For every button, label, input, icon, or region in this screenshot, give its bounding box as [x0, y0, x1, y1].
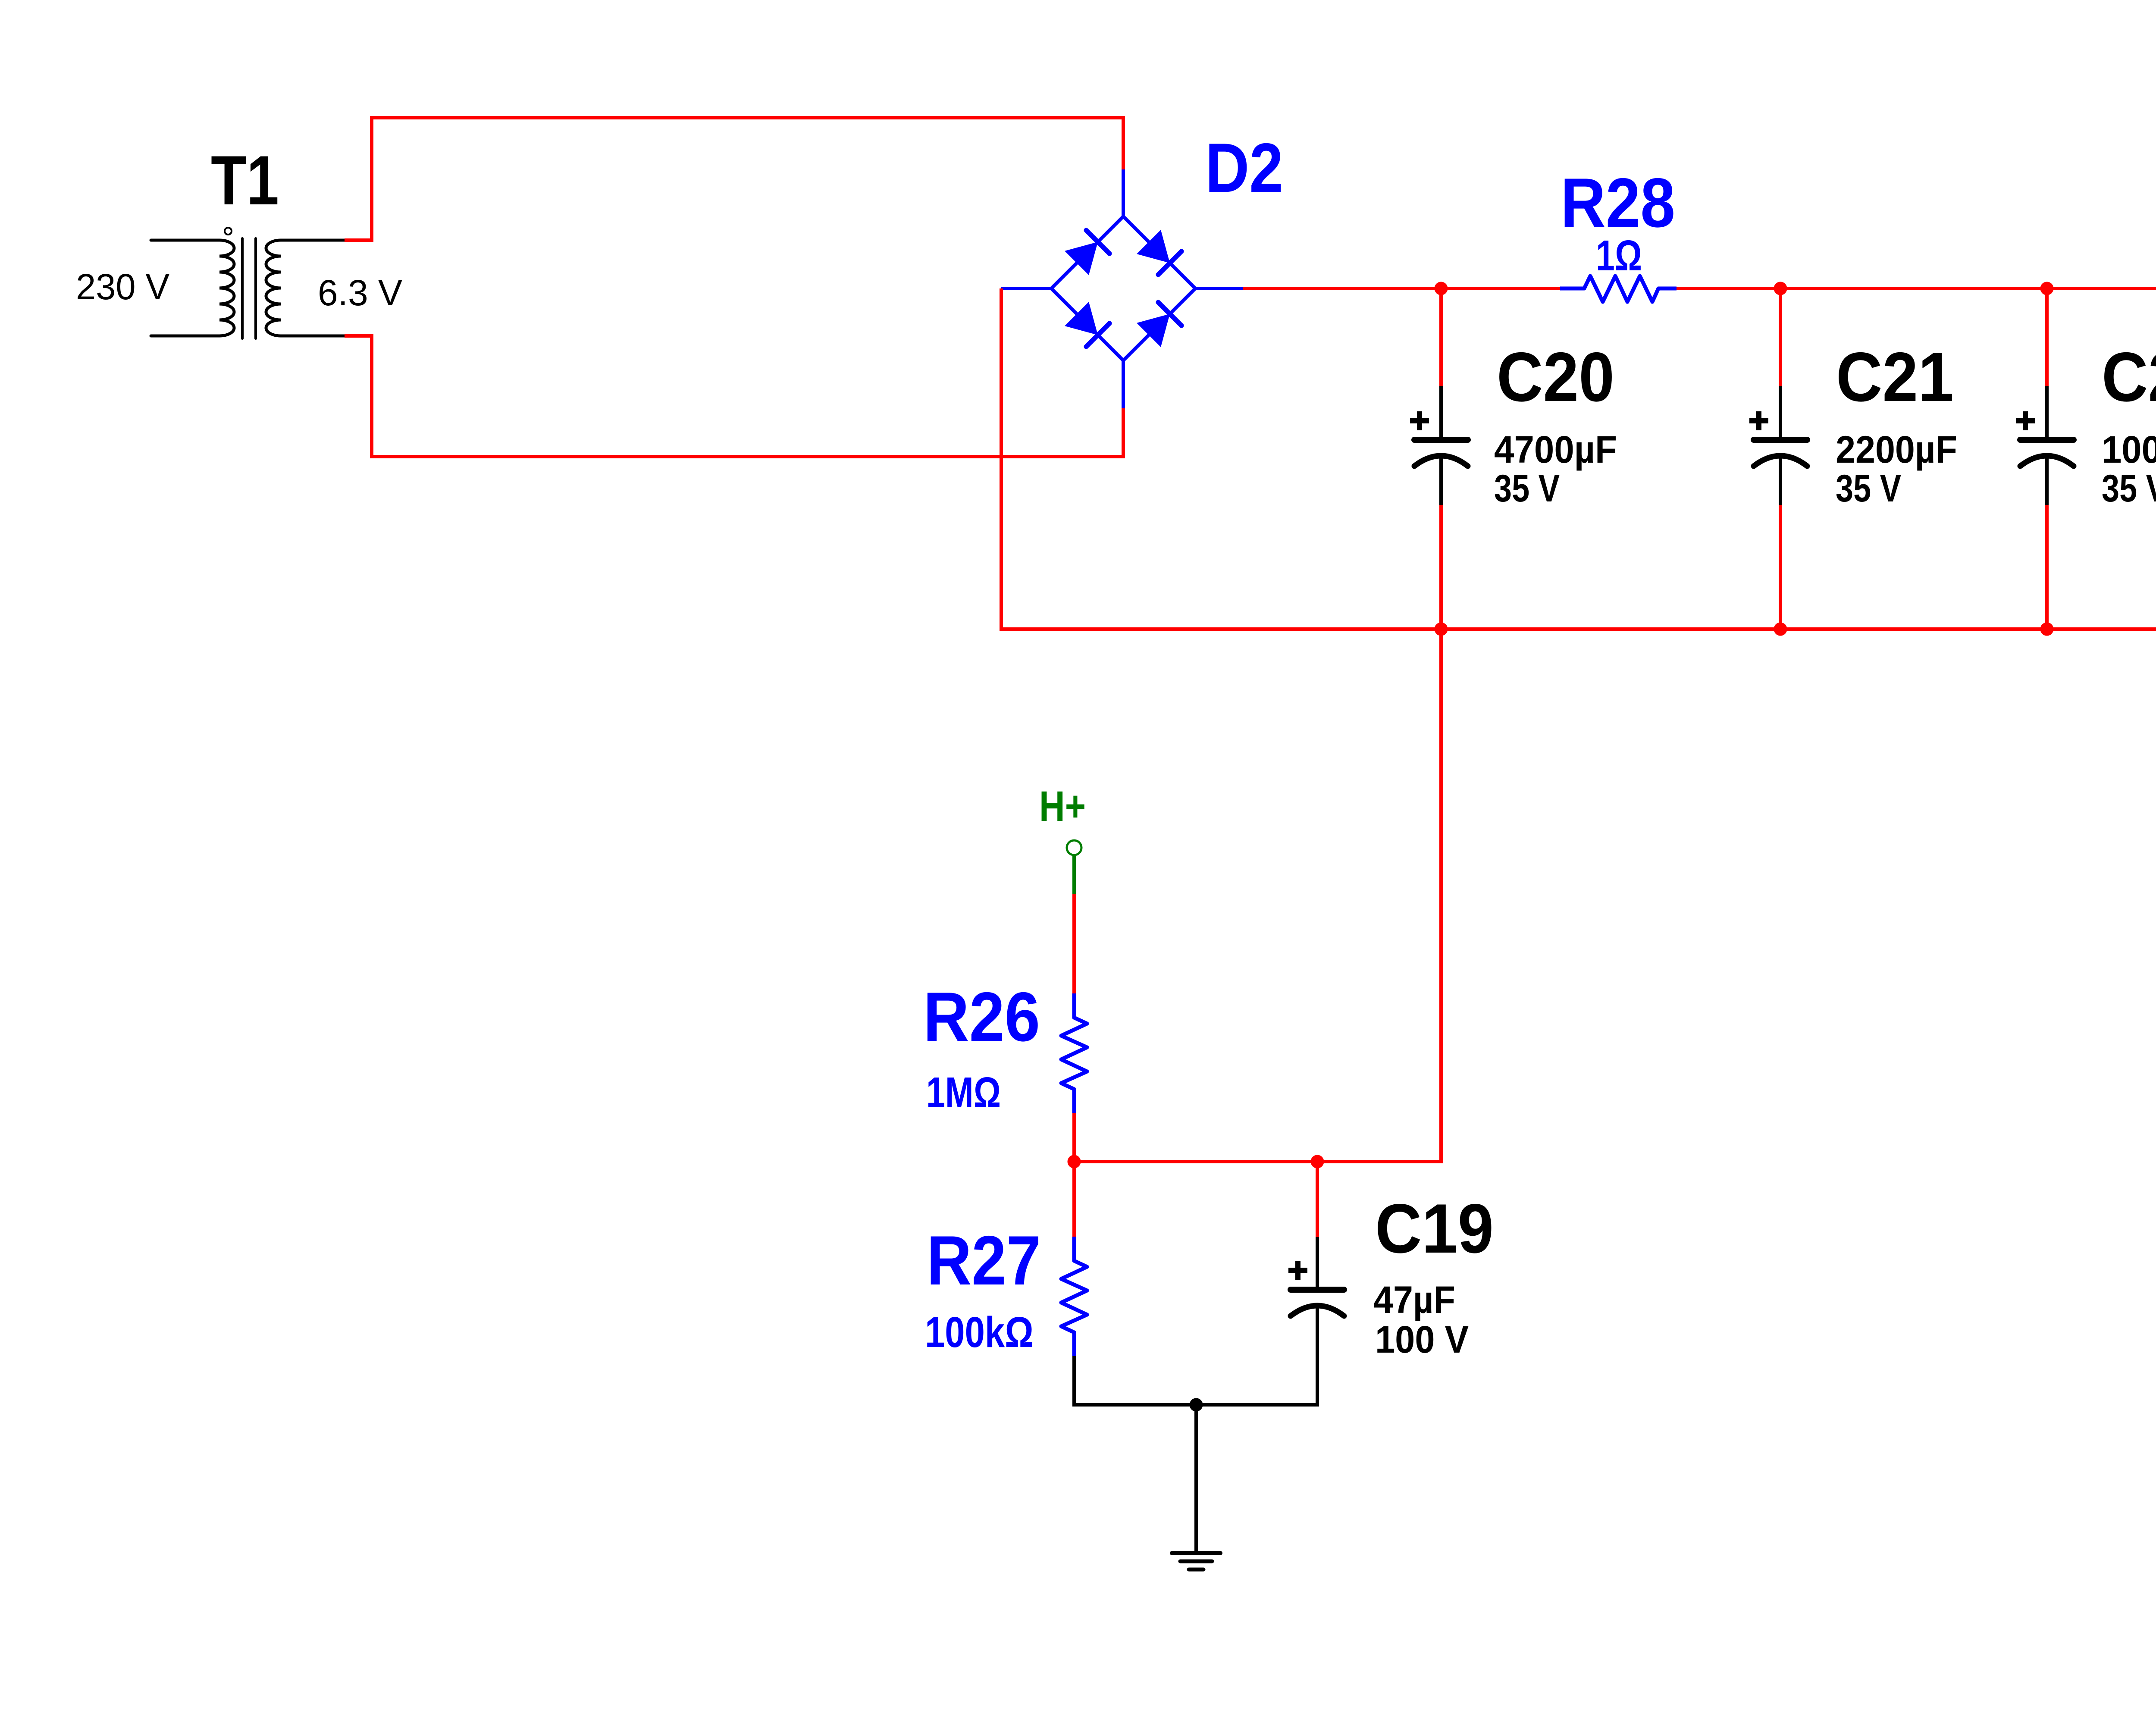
wire bottom rail down to divider node (red): [1074, 629, 1441, 1162]
resistor R28: [1560, 276, 1677, 302]
capacitor C21 top lead (red): [1779, 288, 1782, 386]
capacitor C21 bottom lead (black): [1779, 457, 1782, 505]
capacitor C22 bottom lead (black): [2045, 457, 2049, 505]
capacitor C19 positive plate: [1291, 1287, 1344, 1293]
junction bottom rail x=4747: [2040, 623, 2054, 636]
junction bottom rail x=4129: [1774, 623, 1787, 636]
wire R26 to node (red): [1072, 1113, 1076, 1162]
transformer T1 secondary winding: [266, 240, 345, 336]
capacitor C20 top lead (black): [1439, 386, 1443, 437]
svg-text:35 V: 35 V: [2102, 467, 2156, 510]
diode D2-2 (upper-right): [1137, 230, 1181, 275]
wire node to R27 (red): [1072, 1162, 1076, 1237]
diode D2-4 (lower-right): [1137, 302, 1181, 347]
capacitor C21 plus sign: [1749, 411, 1768, 430]
svg-text:C20: C20: [1497, 338, 1614, 416]
svg-text:35 V: 35 V: [1494, 467, 1560, 510]
svg-text:C19: C19: [1375, 1190, 1494, 1268]
svg-text:6.3 V: 6.3 V: [318, 273, 402, 313]
resistor R27: [1061, 1237, 1087, 1356]
junction C19 top: [1311, 1155, 1324, 1169]
transformer T1 primary winding: [151, 240, 234, 336]
capacitor C21 positive plate: [1754, 437, 1807, 443]
capacitor C20 positive plate: [1414, 437, 1468, 443]
svg-text:1Ω: 1Ω: [1596, 232, 1642, 280]
wire secondary bottom to bridge bottom (red): [345, 336, 1123, 457]
bridge D2 right stub: [1195, 287, 1243, 290]
wire bridge left vertex down and bottom rail (red): [1001, 288, 2156, 629]
bridge D2 bottom stub: [1122, 360, 1125, 408]
bridge D2 left stub: [1001, 287, 1051, 290]
capacitor C19 top lead (red): [1316, 1162, 1319, 1237]
transformer T1 phase dot: [225, 228, 232, 235]
svg-text:R27: R27: [927, 1222, 1041, 1300]
terminal H+: [1067, 840, 1081, 855]
capacitor C21 negative plate (arc): [1754, 456, 1807, 466]
svg-text:4700µF: 4700µF: [1494, 428, 1617, 471]
diode D2-1 (upper-left): [1065, 230, 1109, 275]
junction top rail x=3342: [1435, 282, 1448, 295]
bridge D2 top stub: [1122, 169, 1125, 216]
svg-text:47µF: 47µF: [1373, 1278, 1455, 1321]
junction divider node: [1068, 1155, 1081, 1169]
svg-text:D2: D2: [1205, 129, 1283, 207]
svg-text:H+: H+: [1039, 782, 1086, 830]
capacitor C22 bottom lead (red): [2045, 505, 2049, 629]
svg-text:R26: R26: [923, 978, 1040, 1056]
resistor R26: [1061, 993, 1087, 1113]
wire R28 to terminal 4+5 (red, top rail): [1677, 287, 2156, 290]
capacitor C22 top lead (red): [2045, 288, 2049, 386]
bridge rectifier D2 diamond: [1051, 216, 1195, 360]
svg-text:35 V: 35 V: [1836, 467, 1901, 510]
capacitor C19 top lead (black): [1316, 1237, 1319, 1287]
svg-text:100 V: 100 V: [1375, 1318, 1469, 1361]
wire R27 to ground rail (black): [1074, 1356, 1196, 1405]
capacitor C20 bottom lead (red): [1439, 505, 1443, 629]
capacitor C22 positive plate: [2020, 437, 2074, 443]
svg-text:C22: C22: [2102, 338, 2156, 416]
capacitor C21 bottom lead (red): [1779, 505, 1782, 629]
capacitor C22 plus sign: [2016, 411, 2035, 430]
svg-text:C21: C21: [1836, 338, 1954, 416]
junction top rail x=4747: [2040, 282, 2054, 295]
capacitor C22 top lead (black): [2045, 386, 2049, 437]
capacitor C20 top lead (red): [1439, 288, 1443, 386]
svg-text:1000F: 1000F: [2102, 428, 2156, 471]
junction bottom rail x=3342: [1435, 623, 1448, 636]
capacitor C19 plus sign: [1288, 1261, 1307, 1280]
svg-text:100kΩ: 100kΩ: [925, 1308, 1034, 1356]
capacitor C20 bottom lead (black): [1439, 457, 1443, 505]
ground symbol: [1172, 1553, 1220, 1569]
junction ground node: [1190, 1398, 1203, 1412]
wire H+ to R26 (red): [1072, 894, 1076, 993]
wire H+ stub (green): [1072, 855, 1076, 894]
capacitor C22 negative plate (arc): [2020, 456, 2074, 466]
junction top rail x=4129: [1774, 282, 1787, 295]
diode D2-3 (lower-left): [1065, 302, 1109, 347]
transformer T1 core: [242, 238, 256, 338]
capacitor C21 top lead (black): [1779, 386, 1782, 437]
svg-text:T1: T1: [211, 141, 279, 219]
capacitor C20 plus sign: [1410, 411, 1429, 430]
wire secondary top to bridge top (red): [345, 118, 1123, 240]
svg-text:1MΩ: 1MΩ: [926, 1068, 1001, 1117]
ground stem: [1194, 1405, 1198, 1551]
capacitor C19 negative plate (arc): [1291, 1306, 1344, 1316]
capacitor C20 negative plate (arc): [1414, 456, 1468, 466]
svg-text:2200µF: 2200µF: [1836, 428, 1957, 471]
svg-text:230 V: 230 V: [76, 266, 169, 307]
svg-text:R28: R28: [1561, 164, 1675, 242]
capacitor C19 bottom lead (black): [1196, 1307, 1317, 1405]
wire bridge right to R28 (red, top rail): [1243, 287, 1560, 290]
